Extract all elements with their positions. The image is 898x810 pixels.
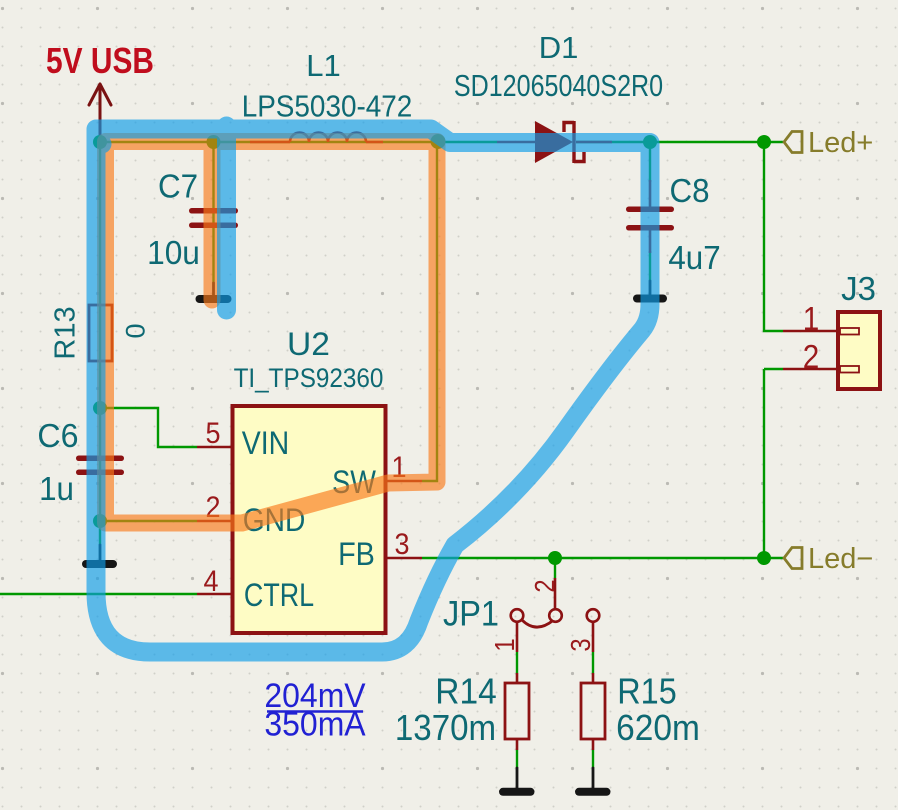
highlight blue current loop xyxy=(96,126,650,652)
wire VIN tap xyxy=(100,408,197,447)
ground at R14 xyxy=(503,768,531,792)
wire SW net xyxy=(422,142,437,481)
svg-text:C8: C8 xyxy=(669,172,709,209)
svg-text:5: 5 xyxy=(205,417,220,451)
node Led- xyxy=(757,551,771,565)
node Led+ xyxy=(757,135,771,149)
wire left rail vertical xyxy=(99,142,101,545)
svg-text:FB: FB xyxy=(338,537,375,573)
svg-text:R13: R13 xyxy=(50,306,82,359)
connector J3 xyxy=(838,312,880,389)
svg-text:1: 1 xyxy=(803,301,820,338)
svg-text:3: 3 xyxy=(394,528,409,562)
svg-text:4: 4 xyxy=(203,565,218,599)
diode D1 xyxy=(497,121,612,163)
wire JP1 pin2 upper xyxy=(554,558,556,578)
wire CTRL from left edge xyxy=(0,593,197,595)
wire GND pin xyxy=(100,520,197,522)
wire JP1 pin3 to R15 xyxy=(592,652,594,673)
capacitor C8 xyxy=(626,207,674,231)
wire Led+ rail to J3 xyxy=(764,142,783,331)
svg-text:4u7: 4u7 xyxy=(668,239,720,276)
svg-text:Led−: Led− xyxy=(808,543,873,575)
svg-text:2: 2 xyxy=(803,339,820,376)
capacitor C6 xyxy=(76,456,124,476)
svg-text:5V USB: 5V USB xyxy=(46,41,154,81)
svg-text:TI_TPS92360: TI_TPS92360 xyxy=(234,364,384,393)
wire JP1 pin1 to R14 xyxy=(516,652,518,673)
wire C8 vertical xyxy=(649,142,651,281)
svg-text:U2: U2 xyxy=(287,326,330,362)
svg-text:1370m: 1370m xyxy=(395,709,496,749)
U2 pin VIN 5 xyxy=(197,446,232,449)
U2 pin SW 1 xyxy=(387,480,422,483)
svg-text:JP1: JP1 xyxy=(443,594,499,633)
wire R14 to gnd xyxy=(516,750,518,768)
ground at C6 xyxy=(86,545,113,564)
wire C7 vertical xyxy=(212,142,214,283)
svg-text:CTRL: CTRL xyxy=(244,578,314,614)
wire J3 pin2 to Led- xyxy=(764,369,783,558)
J3 pin 2 xyxy=(783,368,838,371)
node 5V corner xyxy=(93,135,107,149)
resistor R14 xyxy=(505,683,529,739)
svg-text:VIN: VIN xyxy=(242,427,289,462)
ground at R15 xyxy=(579,768,607,792)
resistor R15 xyxy=(581,683,605,739)
resistor R13 xyxy=(89,305,112,361)
svg-text:1u: 1u xyxy=(39,470,74,507)
U2 pin FB 3 xyxy=(387,557,422,560)
wire top rail 5V to L1/D1/junctions xyxy=(100,141,764,143)
node SW/L1/D1 xyxy=(431,134,446,149)
svg-text:C6: C6 xyxy=(37,417,78,454)
wire R15 to gnd xyxy=(592,750,594,768)
svg-text:350mA: 350mA xyxy=(264,705,365,743)
svg-text:C7: C7 xyxy=(158,168,198,205)
global label Led+ xyxy=(784,132,802,153)
jumper JP1 xyxy=(511,578,600,683)
capacitor C7 xyxy=(189,208,238,228)
U2 pin GND 2 xyxy=(197,520,232,523)
svg-text:3: 3 xyxy=(564,638,596,651)
node VIN tap xyxy=(93,401,107,415)
node GND tap xyxy=(93,514,107,528)
node FB/JP1 xyxy=(548,551,562,565)
node C7 tap xyxy=(207,135,221,149)
inductor L1 xyxy=(250,133,383,143)
J3 pin 1 xyxy=(783,330,838,333)
svg-text:10u: 10u xyxy=(147,234,200,271)
svg-text:R15: R15 xyxy=(617,672,676,712)
svg-text:Led+: Led+ xyxy=(808,127,873,159)
wire FB / Led- rail xyxy=(422,557,783,559)
highlight orange current loop xyxy=(106,142,438,524)
IC U2 body xyxy=(233,406,386,633)
svg-text:0: 0 xyxy=(121,323,151,338)
U2 pin CTRL 4 xyxy=(197,593,232,596)
power symbol 5V USB arrow xyxy=(89,84,111,142)
svg-text:L1: L1 xyxy=(306,48,340,83)
svg-text:R14: R14 xyxy=(435,672,496,711)
global label Led- xyxy=(784,548,802,569)
svg-text:J3: J3 xyxy=(841,270,876,307)
svg-text:1: 1 xyxy=(488,638,520,651)
svg-text:SD12065040S2R0: SD12065040S2R0 xyxy=(454,67,663,102)
svg-text:LPS5030-472: LPS5030-472 xyxy=(242,89,413,124)
ground at C7 xyxy=(200,283,228,299)
svg-text:D1: D1 xyxy=(539,30,579,65)
svg-text:2: 2 xyxy=(528,579,560,592)
svg-text:620m: 620m xyxy=(616,709,700,748)
ground at C8 xyxy=(637,281,663,299)
node D1/C8 xyxy=(643,135,657,149)
